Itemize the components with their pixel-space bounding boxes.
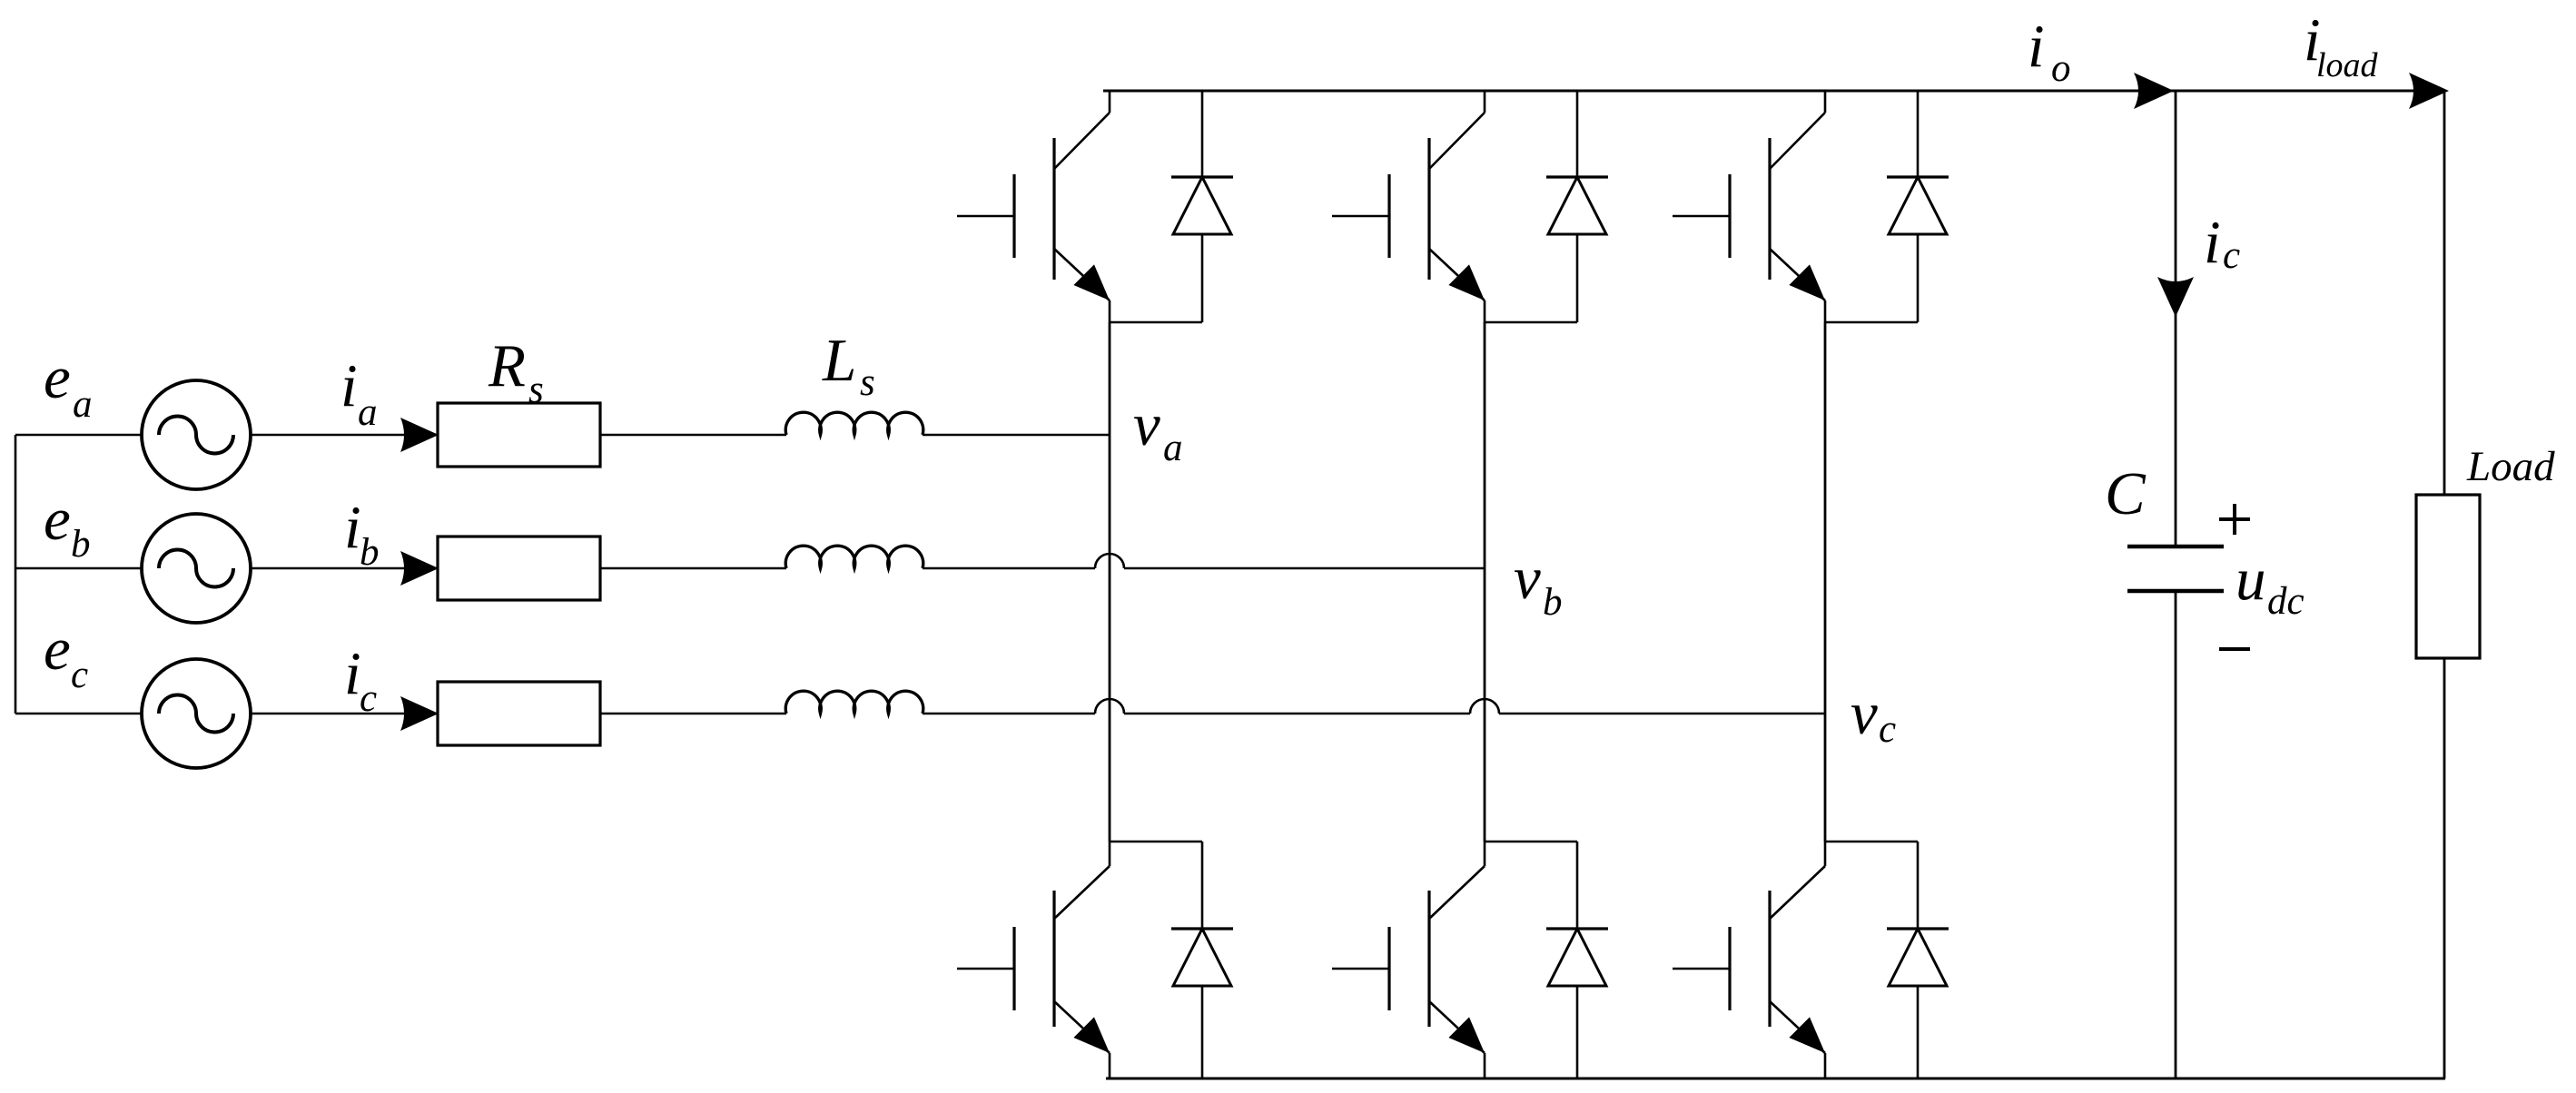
wire source b to resistor: [251, 567, 438, 570]
IGBT S5 gate lead: [1332, 968, 1389, 970]
AC source eb: [142, 514, 251, 623]
diode D5 cathode bar: [1546, 927, 1608, 930]
diode D4 anode lead: [1201, 986, 1204, 1078]
svg-text:dc: dc: [2267, 580, 2305, 623]
wire source a to resistor: [251, 434, 438, 437]
svg-text:e: e: [44, 615, 71, 683]
svg-text:c: c: [1879, 708, 1896, 751]
svg-text:v: v: [1133, 391, 1160, 458]
IGBT S5 body bar: [1427, 891, 1430, 1027]
svg-text:i: i: [2028, 13, 2045, 80]
wire bus to source a: [15, 434, 142, 437]
svg-text:s: s: [860, 361, 875, 404]
label ic: [344, 640, 377, 720]
wire bottom dc rail: [1106, 1078, 2445, 1080]
current arrow ic: [400, 696, 439, 731]
label Load: [2466, 443, 2555, 490]
IGBT S4 emitter arrow: [1073, 1017, 1110, 1053]
IGBT S5 gate bar: [1387, 927, 1390, 1010]
IGBT S6 gate lead: [1673, 968, 1730, 970]
IGBT S3 collector: [1770, 91, 1825, 169]
svg-text:R: R: [488, 332, 526, 399]
label ia: [341, 352, 378, 434]
svg-text:i: i: [344, 640, 361, 707]
diode D2 cathode lead: [1576, 91, 1579, 177]
IGBT S4 emitter: [1054, 1001, 1110, 1078]
IGBT S2 gate lead: [1332, 215, 1389, 218]
wire phase leg c: [1824, 322, 1827, 842]
wire bus to source b: [15, 567, 142, 570]
diode D3 triangle: [1889, 177, 1947, 234]
label Ls: [822, 327, 875, 404]
wire phase leg b: [1484, 322, 1486, 842]
svg-text:v: v: [1851, 680, 1878, 747]
wire connector IGBT S2 to diode D2: [1485, 321, 1577, 324]
svg-text:a: a: [1163, 427, 1183, 469]
resistor Rs phase b: [438, 537, 600, 600]
current arrow iload: [2409, 73, 2449, 109]
wire inductor to crossing at leg a (phase c): [923, 713, 1095, 715]
AC source ec: [142, 659, 251, 768]
wire bus to source c: [15, 713, 142, 715]
IGBT S4 body bar: [1052, 891, 1055, 1027]
wire resistor to inductor phase c: [600, 713, 786, 715]
IGBT S3 gate lead: [1673, 215, 1730, 218]
wire resistor to inductor phase b: [600, 567, 786, 570]
wire crossing to node vb: [1124, 567, 1485, 570]
diode D4 cathode bar: [1171, 927, 1233, 930]
diode D1 cathode lead: [1201, 91, 1204, 177]
IGBT S6 emitter: [1770, 1001, 1825, 1078]
wire between crossings (phase c): [1124, 713, 1470, 715]
IGBT S1 body bar: [1052, 138, 1055, 280]
svg-text:L: L: [822, 327, 856, 394]
label eb: [44, 486, 91, 566]
diode D6 triangle: [1889, 929, 1947, 986]
diode D1 cathode bar: [1171, 175, 1233, 178]
inductor Ls phase b: [785, 546, 923, 568]
IGBT S5 emitter arrow: [1448, 1017, 1485, 1053]
wire inductor to crossing at leg a (phase b): [923, 567, 1095, 570]
IGBT S3 emitter arrow: [1789, 264, 1825, 300]
svg-text:C: C: [2105, 460, 2147, 527]
label udc: [2235, 546, 2305, 623]
diode D3 cathode bar: [1887, 175, 1949, 178]
wire top dc rail: [1103, 90, 2445, 93]
label minus: [2219, 647, 2250, 651]
IGBT S5 emitter: [1429, 1001, 1485, 1078]
diode D3 anode lead: [1917, 234, 1920, 322]
inductor Ls phase a: [785, 412, 923, 435]
svg-text:c: c: [2223, 234, 2240, 277]
label ea: [44, 344, 93, 426]
diode D5 triangle: [1548, 929, 1606, 986]
label iload: [2304, 6, 2379, 84]
svg-text:u: u: [2235, 546, 2266, 613]
label ec: [44, 615, 88, 696]
svg-text:e: e: [44, 344, 71, 411]
svg-text:a: a: [73, 383, 93, 426]
svg-text:Load: Load: [2466, 443, 2555, 490]
IGBT S6 body bar: [1768, 891, 1771, 1027]
wire connector IGBT S6 to diode D6: [1825, 841, 1918, 843]
IGBT S6 gate bar: [1728, 927, 1731, 1010]
wire crossing to node vc: [1499, 713, 1825, 715]
IGBT S4 gate bar: [1012, 927, 1015, 1010]
current arrow io: [2134, 73, 2174, 109]
capacitor C plates: [2127, 546, 2224, 591]
svg-text:i: i: [341, 352, 358, 419]
AC source ea: [142, 380, 251, 489]
label plus: [2219, 504, 2250, 535]
svg-text:v: v: [1514, 545, 1541, 612]
current arrow ic: [2157, 277, 2194, 317]
IGBT S1 gate lead: [957, 215, 1014, 218]
diode D2 cathode bar: [1546, 175, 1608, 178]
IGBT S2 collector: [1429, 91, 1485, 169]
resistor Rs phase c: [438, 682, 600, 745]
IGBT S1 emitter arrow: [1073, 264, 1110, 300]
diode D4 triangle: [1173, 929, 1231, 986]
crossover hop phase c over leg b: [1470, 699, 1499, 714]
label node va: [1133, 391, 1183, 469]
current arrow ia: [400, 418, 439, 452]
crossover hop phase c over leg a: [1095, 699, 1124, 714]
IGBT S2 gate bar: [1387, 174, 1390, 258]
diode D6 anode lead: [1917, 986, 1920, 1078]
wire capacitor branch lower: [2175, 591, 2177, 1078]
svg-text:e: e: [44, 486, 71, 553]
IGBT S3 body bar: [1768, 138, 1771, 280]
diode D4 cathode lead: [1201, 842, 1204, 929]
wire resistor to inductor phase a: [600, 434, 786, 437]
IGBT S1 emitter: [1054, 249, 1110, 322]
diode D6 cathode lead: [1917, 842, 1920, 929]
svg-text:o: o: [2051, 47, 2071, 90]
inductor Ls phase c: [785, 691, 923, 714]
svg-text:b: b: [1543, 581, 1563, 624]
IGBT S2 body bar: [1427, 138, 1430, 280]
svg-text:c: c: [71, 654, 88, 696]
IGBT S5 collector: [1429, 842, 1485, 919]
IGBT S2 emitter arrow: [1448, 264, 1485, 300]
IGBT S4 gate lead: [957, 968, 1014, 970]
crossover hop phase b over leg a: [1095, 554, 1124, 568]
wire connector IGBT S4 to diode D4: [1110, 841, 1202, 843]
svg-text:load: load: [2316, 46, 2379, 84]
svg-text:a: a: [358, 391, 378, 434]
wire source c to resistor: [251, 713, 438, 715]
svg-text:s: s: [528, 369, 544, 411]
load resistor box: [2416, 495, 2480, 658]
resistor Rs phase a: [438, 403, 600, 467]
IGBT S6 collector: [1770, 842, 1825, 919]
wire load branch upper: [2443, 91, 2446, 495]
svg-text:i: i: [2204, 209, 2221, 276]
label ib: [344, 494, 380, 574]
wire left neutral bus: [15, 435, 17, 714]
diode D5 cathode lead: [1576, 842, 1579, 929]
IGBT S6 emitter arrow: [1789, 1017, 1825, 1053]
label C: [2105, 460, 2147, 527]
wire connector IGBT S3 to diode D3: [1825, 321, 1918, 324]
wire capacitor branch upper: [2175, 91, 2177, 546]
svg-text:b: b: [71, 523, 91, 566]
diode D2 triangle: [1548, 177, 1606, 234]
wire connector IGBT S5 to diode D5: [1485, 841, 1577, 843]
IGBT S2 emitter: [1429, 249, 1485, 322]
diode D3 cathode lead: [1917, 91, 1920, 177]
wire connector IGBT S1 to diode D1: [1110, 321, 1202, 324]
wire inductor to node va: [923, 434, 1110, 437]
wire load branch lower: [2443, 658, 2446, 1078]
label Rs: [488, 332, 544, 411]
label node vb: [1514, 545, 1563, 624]
diode D5 anode lead: [1576, 986, 1579, 1078]
svg-text:b: b: [360, 531, 380, 574]
wire phase leg a: [1109, 322, 1111, 842]
diode D2 anode lead: [1576, 234, 1579, 322]
diode D1 triangle: [1173, 177, 1231, 234]
diode D6 cathode bar: [1887, 927, 1949, 930]
current arrow ib: [400, 551, 439, 586]
IGBT S4 collector: [1054, 842, 1110, 919]
IGBT S1 collector: [1054, 91, 1110, 169]
svg-text:i: i: [344, 494, 361, 561]
IGBT S1 gate bar: [1012, 174, 1015, 258]
label ic: [2204, 209, 2240, 277]
IGBT S3 emitter: [1770, 249, 1825, 322]
label node vc: [1851, 680, 1896, 751]
diode D1 anode lead: [1201, 234, 1204, 322]
svg-text:c: c: [360, 677, 377, 720]
label io: [2028, 13, 2071, 90]
IGBT S3 gate bar: [1728, 174, 1731, 258]
